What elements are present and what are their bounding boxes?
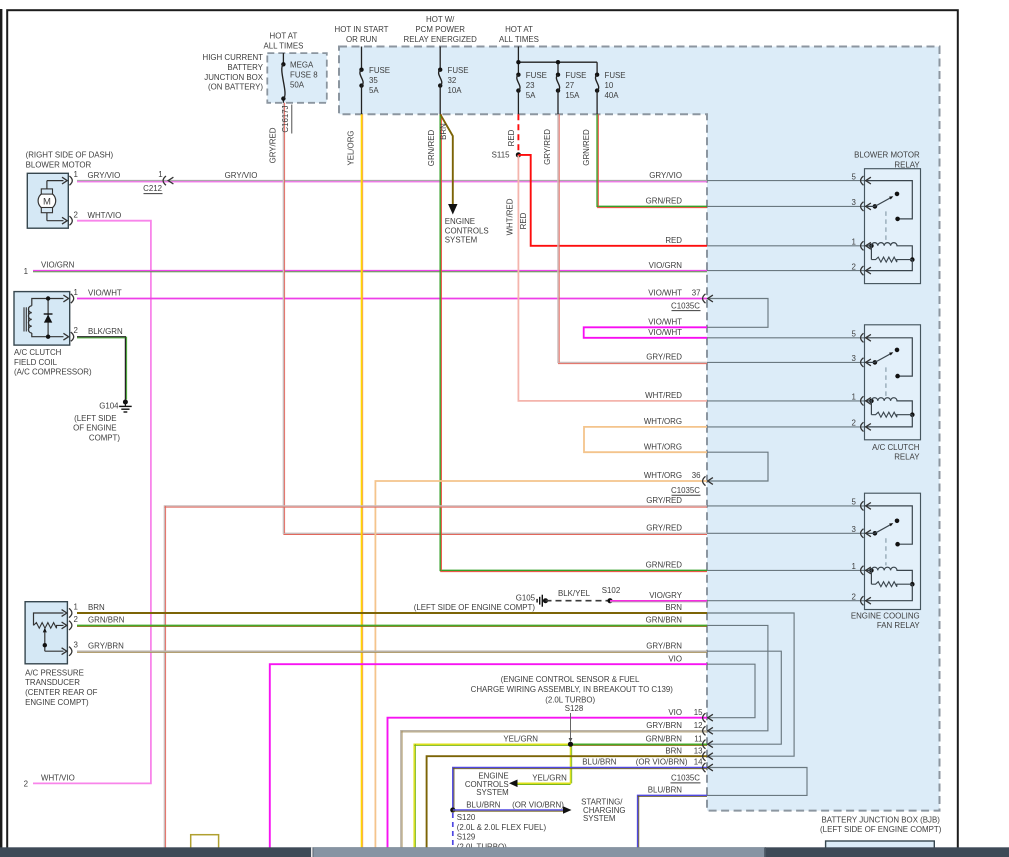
svg-text:BRN: BRN — [665, 746, 682, 755]
svg-text:1: 1 — [74, 602, 78, 611]
svg-text:(OR VIO/BRN): (OR VIO/BRN) — [636, 758, 688, 767]
svg-text:G105: G105 — [516, 594, 536, 603]
svg-text:(CENTER REAR OF: (CENTER REAR OF — [25, 688, 98, 697]
svg-text:2: 2 — [74, 615, 78, 624]
svg-text:GRN/RED: GRN/RED — [646, 561, 683, 570]
svg-text:3: 3 — [852, 525, 857, 534]
svg-text:YEL/GRN: YEL/GRN — [532, 774, 567, 783]
svg-text:S129: S129 — [457, 833, 476, 842]
svg-text:A/C PRESSURE: A/C PRESSURE — [25, 668, 84, 677]
svg-text:(2.0L & 2.0L FLEX FUEL): (2.0L & 2.0L FLEX FUEL) — [457, 823, 547, 832]
wire GRY/RED mega fuse8 down to engine cooling fan relay pin3 — [283, 103, 707, 534]
svg-text:(RIGHT SIDE OF DASH): (RIGHT SIDE OF DASH) — [26, 151, 114, 160]
svg-text:GRY/RED: GRY/RED — [543, 129, 552, 165]
svg-text:ALL TIMES: ALL TIMES — [263, 41, 303, 50]
svg-text:(ON BATTERY): (ON BATTERY) — [208, 83, 263, 92]
svg-text:BLU/BRN: BLU/BRN — [466, 800, 501, 809]
svg-text:5: 5 — [852, 172, 857, 181]
svg-text:3: 3 — [74, 641, 79, 650]
svg-text:1: 1 — [852, 238, 856, 247]
svg-text:5A: 5A — [526, 91, 536, 100]
svg-text:HOT AT: HOT AT — [270, 32, 298, 41]
gray wire to blower relay pin3 — [707, 205, 865, 207]
arrow to starting charging system right — [563, 806, 572, 814]
svg-text:COMPT): COMPT) — [89, 433, 120, 442]
feed line fuse 32 — [439, 47, 441, 70]
gray wire to ac clutch relay pin3 — [707, 361, 865, 363]
svg-text:OR RUN: OR RUN — [346, 35, 377, 44]
svg-text:14: 14 — [694, 758, 703, 767]
mega fuse 8 50A — [281, 62, 285, 66]
svg-text:FUSE: FUSE — [565, 71, 586, 80]
component box bottom right cut off — [826, 841, 935, 857]
svg-text:GRN/BRN: GRN/BRN — [88, 616, 125, 625]
wire VIO/WHT ac clutch coil pin1 to connector C1035C pin37 — [77, 298, 707, 300]
gray wire to fan relay pin2 — [707, 600, 865, 602]
svg-text:2: 2 — [852, 593, 856, 602]
svg-text:3: 3 — [852, 198, 857, 207]
svg-text:ALL TIMES: ALL TIMES — [499, 35, 539, 44]
svg-text:GRN/RED: GRN/RED — [646, 197, 683, 206]
svg-text:2: 2 — [74, 326, 78, 335]
svg-text:WHT/ORG: WHT/ORG — [644, 442, 682, 451]
connector C1035C pin 14 — [703, 763, 706, 772]
bottom scrollbar — [0, 847, 1009, 857]
wire BLU/BRN dashed splice S120 down (S129) — [452, 813, 454, 857]
wire WHT/VIO blower motor pin2 down-left stub 2 — [33, 221, 151, 784]
svg-text:1: 1 — [852, 562, 856, 571]
svg-text:WHT/ORG: WHT/ORG — [644, 471, 682, 480]
svg-text:(OR VIO/BRN): (OR VIO/BRN) — [512, 800, 564, 809]
svg-text:5: 5 — [852, 498, 857, 507]
ground G104 — [123, 400, 128, 405]
svg-text:15: 15 — [694, 708, 703, 717]
ac clutch coil pin 2 connector — [71, 332, 74, 341]
wire BLU/BRN splice S120 to starting charging arrow — [453, 809, 563, 811]
svg-text:GRY/RED: GRY/RED — [646, 353, 682, 362]
svg-text:12: 12 — [694, 721, 703, 730]
wire BRN ac pressure transducer pin1 to BJB — [77, 612, 707, 614]
svg-text:FUSE 8: FUSE 8 — [290, 71, 318, 80]
fuse F35 5A — [359, 68, 363, 72]
svg-text:27: 27 — [565, 81, 574, 90]
component box bottom left cut off — [191, 835, 219, 857]
svg-text:RELAY: RELAY — [894, 453, 920, 462]
svg-text:GRY/BRN: GRY/BRN — [88, 641, 124, 650]
ac clutch relay — [865, 325, 921, 440]
svg-text:1: 1 — [74, 170, 78, 179]
wire BLK/GRN ac clutch coil pin2 to ground G104 — [77, 337, 125, 400]
inline connector C212 — [163, 176, 166, 185]
svg-text:(LEFT SIDE OF ENGINE COMPT): (LEFT SIDE OF ENGINE COMPT) — [414, 603, 536, 612]
svg-text:1: 1 — [74, 288, 78, 297]
svg-text:VIO/WHT: VIO/WHT — [648, 318, 682, 327]
svg-text:PCM POWER: PCM POWER — [415, 25, 465, 34]
fuse F32 10A — [438, 68, 442, 72]
mega fuse 8 feed lines — [282, 53, 284, 64]
svg-text:GRY/BRN: GRY/BRN — [646, 641, 682, 650]
splice S102 — [607, 598, 612, 603]
svg-text:BLK/YEL: BLK/YEL — [558, 589, 591, 598]
svg-text:23: 23 — [526, 81, 535, 90]
svg-text:TRANSDUCER: TRANSDUCER — [25, 678, 80, 687]
wire YEL/GRN splice S128 down to engine controls arrow — [514, 744, 571, 783]
svg-text:5A: 5A — [369, 86, 379, 95]
svg-text:VIO: VIO — [668, 654, 682, 663]
wire BLK/YEL dashed ground G105 to splice S102 — [546, 600, 611, 602]
blower motor pin 1 connector — [69, 176, 72, 185]
svg-text:35: 35 — [369, 76, 378, 85]
svg-text:GRY/RED: GRY/RED — [646, 524, 682, 533]
svg-text:BATTERY: BATTERY — [227, 63, 263, 72]
svg-text:VIO/WHT: VIO/WHT — [648, 328, 682, 337]
svg-text:VIO/GRN: VIO/GRN — [649, 261, 683, 270]
wire RED dashed fuse23 to splice S115 — [517, 114, 519, 155]
svg-text:HIGH CURRENT: HIGH CURRENT — [203, 53, 264, 62]
fuse F10 40A — [595, 73, 599, 77]
svg-text:FUSE: FUSE — [526, 71, 547, 80]
gray loop GRN/BRN to connector 12 — [707, 625, 768, 730]
svg-text:G104: G104 — [99, 401, 119, 410]
gray loop connector 36 inside box — [707, 452, 768, 481]
svg-text:FAN RELAY: FAN RELAY — [877, 621, 921, 630]
svg-text:M: M — [43, 196, 51, 207]
svg-text:GRY/VIO: GRY/VIO — [88, 171, 121, 180]
svg-text:36: 36 — [692, 471, 701, 480]
connector C1035C pin 12 — [703, 726, 706, 735]
svg-text:C1035C: C1035C — [671, 301, 700, 310]
svg-text:MEGA: MEGA — [290, 61, 314, 70]
wire YEL/GRN splice S128 left and down to bottom — [414, 744, 570, 857]
svg-text:10: 10 — [605, 81, 614, 90]
svg-text:HOT IN START: HOT IN START — [335, 25, 389, 34]
svg-text:GRY/VIO: GRY/VIO — [649, 171, 682, 180]
svg-text:YEL/GRN: YEL/GRN — [503, 734, 538, 743]
svg-text:GRN/RED: GRN/RED — [582, 129, 591, 166]
blower motor — [27, 173, 68, 228]
fuse F23 5A — [516, 73, 520, 77]
svg-text:5: 5 — [852, 330, 857, 339]
ground G105 — [543, 598, 548, 603]
connector C1035C pin 13 — [703, 752, 706, 761]
svg-text:S120: S120 — [457, 813, 476, 822]
wire BLU/BRN connector C1035C pin14 to splice S120 — [453, 768, 707, 811]
svg-text:GRY/RED: GRY/RED — [269, 127, 278, 163]
svg-text:11: 11 — [694, 734, 702, 743]
svg-text:SYSTEM: SYSTEM — [583, 814, 615, 823]
wire BRN fuse32 branch to engine controls system arrow — [440, 114, 453, 204]
gray wire to fan relay pin1 — [707, 569, 865, 571]
svg-text:JUNCTION BOX: JUNCTION BOX — [204, 73, 263, 82]
wire GRY/BRN connector C1035C pin12 to bottom — [401, 731, 707, 857]
svg-text:HOT W/: HOT W/ — [426, 15, 455, 24]
svg-text:RELAY ENERGIZED: RELAY ENERGIZED — [404, 35, 478, 44]
svg-text:OF ENGINE: OF ENGINE — [73, 424, 116, 433]
ac clutch field coil — [14, 292, 70, 346]
svg-text:13: 13 — [694, 746, 703, 755]
clutch coil diode — [47, 299, 49, 337]
wire VIO connector C1035C pin15 to bottom — [388, 718, 708, 857]
splice S115 — [516, 152, 521, 157]
svg-text:1: 1 — [158, 170, 162, 179]
svg-text:BRN: BRN — [665, 603, 682, 612]
svg-text:VIO/WHT: VIO/WHT — [648, 289, 682, 298]
svg-text:ENGINE: ENGINE — [445, 217, 475, 226]
svg-text:BLK/GRN: BLK/GRN — [88, 327, 123, 336]
svg-text:BRN: BRN — [88, 603, 105, 612]
svg-text:GRY/VIO: GRY/VIO — [225, 171, 258, 180]
connector C1035C pin 36 — [703, 476, 706, 485]
svg-text:VIO/GRN: VIO/GRN — [41, 261, 75, 270]
gray wire to ac clutch relay pin1 — [707, 400, 865, 402]
blower motor relay — [865, 169, 921, 284]
svg-text:C1035C: C1035C — [671, 486, 700, 495]
wire VIO/GRY splice S102 to engine cooling fan relay pin2 — [610, 600, 707, 602]
svg-text:40A: 40A — [605, 91, 620, 100]
svg-text:CONTROLS: CONTROLS — [445, 226, 489, 235]
connector C1035C pin 15 — [703, 713, 706, 722]
svg-text:2: 2 — [74, 210, 78, 219]
svg-text:VIO: VIO — [668, 708, 682, 717]
wire BLU/BRN from BJB exit down to bottom — [638, 795, 707, 857]
transducer pin 2 connector — [69, 621, 72, 630]
svg-text:(ENGINE CONTROL SENSOR & FUEL: (ENGINE CONTROL SENSOR & FUEL — [501, 675, 640, 684]
splice S128 — [568, 742, 573, 747]
svg-text:RELAY: RELAY — [894, 160, 920, 169]
svg-text:GRN/BRN: GRN/BRN — [646, 616, 683, 625]
svg-text:2: 2 — [24, 779, 28, 788]
engine cooling fan relay — [865, 493, 921, 609]
gray wire to fan relay pin3 — [707, 532, 865, 534]
svg-text:15A: 15A — [565, 91, 580, 100]
splice S120 — [450, 807, 455, 812]
svg-text:WHT/ORG: WHT/ORG — [644, 417, 682, 426]
svg-text:VIO/WHT: VIO/WHT — [88, 289, 122, 298]
svg-text:32: 32 — [448, 76, 457, 85]
svg-text:RED: RED — [507, 129, 516, 146]
svg-text:FUSE: FUSE — [448, 66, 469, 75]
wire WHT/ORG ac clutch relay pin2 u-loop outside box — [584, 427, 707, 452]
feed and bus for fuses 23/27/10 — [517, 47, 519, 63]
gray wire to ac clutch relay pin2 — [707, 426, 865, 428]
connector C1035C pin 11 — [703, 740, 706, 749]
svg-text:GRY/RED: GRY/RED — [646, 496, 682, 505]
svg-text:A/C CLUTCH: A/C CLUTCH — [872, 443, 920, 452]
svg-text:A/C CLUTCH: A/C CLUTCH — [14, 348, 62, 357]
wire VIO down to bottom and right to BJB — [270, 664, 707, 857]
wire VIO/WHT u-loop outside box to ac clutch relay pin5 — [584, 327, 707, 338]
svg-text:S115: S115 — [492, 151, 510, 160]
battery junction box BJB dashed region — [339, 47, 940, 811]
wire GRN/RED fuse10 to blower relay pin3 — [597, 114, 707, 206]
transducer wiper — [43, 628, 47, 633]
wire GRY/RED from bottom up to engine cooling fan relay pin5 — [164, 506, 707, 857]
transducer pin 3 connector — [69, 647, 72, 656]
svg-text:3: 3 — [852, 354, 857, 363]
arrow to engine controls system left — [509, 780, 518, 788]
svg-text:37: 37 — [692, 289, 701, 298]
svg-text:FIELD COIL: FIELD COIL — [14, 358, 58, 367]
svg-text:BLU/BRN: BLU/BRN — [582, 758, 617, 767]
svg-text:SYSTEM: SYSTEM — [476, 788, 508, 797]
transducer pin 1 connector — [69, 608, 72, 617]
blower motor pin 2 connector — [69, 216, 72, 225]
svg-text:GRN/BRN: GRN/BRN — [646, 734, 683, 743]
svg-text:VIO/GRY: VIO/GRY — [649, 591, 682, 600]
svg-text:HOT AT: HOT AT — [505, 25, 533, 34]
wire GRY/VIO blower motor pin1 to blower relay pin5 — [77, 180, 707, 182]
gray wire to blower relay pin1 — [707, 245, 865, 247]
S128 leader line — [570, 713, 572, 739]
fuse F27 15A — [556, 73, 560, 77]
svg-text:50A: 50A — [290, 81, 305, 90]
svg-text:BLOWER MOTOR: BLOWER MOTOR — [854, 151, 920, 160]
svg-text:C1035C: C1035C — [671, 774, 700, 783]
gray loop connector 14 to BLU/BRN exit — [707, 768, 807, 796]
svg-text:CHARGE WIRING ASSEMBLY, IN BRE: CHARGE WIRING ASSEMBLY, IN BREAKOUT TO C… — [471, 685, 674, 694]
wire GRN/RED fuse32 down to engine cooling fan relay pin1 — [440, 114, 707, 570]
svg-text:C212: C212 — [143, 184, 162, 193]
ac clutch coil pin 1 connector — [71, 294, 74, 303]
wire YEL/ORG fuse35 down to bottom — [361, 114, 363, 857]
svg-text:2: 2 — [852, 262, 856, 271]
svg-text:C1617J: C1617J — [281, 105, 290, 132]
wire VIO/GRN stub1 to blower relay pin2 — [33, 270, 707, 272]
svg-text:ENGINE COOLING: ENGINE COOLING — [851, 611, 920, 620]
gray loop VIO to connector 15 — [707, 664, 755, 718]
svg-text:(LEFT SIDE: (LEFT SIDE — [74, 414, 116, 423]
svg-text:1: 1 — [852, 393, 856, 402]
svg-text:ENGINE COMPT): ENGINE COMPT) — [25, 698, 89, 707]
wire GRN/BRN ac pressure transducer pin2 to BJB — [77, 624, 707, 626]
svg-text:FUSE: FUSE — [605, 71, 626, 80]
svg-text:FUSE: FUSE — [369, 66, 390, 75]
svg-text:RED: RED — [665, 236, 682, 245]
outer left edge line — [0, 9, 2, 857]
connector C1035C pin 37 — [703, 294, 706, 303]
gray loop GRY/BRN to connector 11 — [707, 651, 781, 744]
svg-text:WHT/VIO: WHT/VIO — [88, 211, 122, 220]
svg-text:1: 1 — [24, 267, 28, 276]
high current battery junction box (mega fuse) dashed box — [267, 53, 327, 103]
svg-text:GRN/RED: GRN/RED — [427, 130, 436, 167]
wire RED splice S115 to blower relay pin1 — [518, 155, 707, 246]
gray loop connector 37 inside box — [707, 299, 768, 328]
svg-text:S128: S128 — [565, 704, 584, 713]
svg-text:WHT/RED: WHT/RED — [645, 391, 682, 400]
svg-text:10A: 10A — [448, 86, 463, 95]
wire WHT/ORG connector C1035C pin36 left and down to bottom — [375, 481, 707, 857]
svg-text:WHT/VIO: WHT/VIO — [41, 774, 75, 783]
svg-text:SYSTEM: SYSTEM — [445, 236, 477, 245]
feed line fuse 35 — [361, 47, 363, 70]
wire BRN connector C1035C pin13 to bottom — [427, 756, 707, 857]
motor M symbol — [38, 192, 56, 210]
svg-text:BATTERY JUNCTION BOX (BJB): BATTERY JUNCTION BOX (BJB) — [822, 815, 941, 824]
gray wire to fan relay pin5 — [707, 505, 865, 507]
arrow engine controls system — [448, 204, 457, 215]
svg-text:RED: RED — [519, 212, 528, 229]
gray loop BRN to connector 13 — [707, 613, 794, 756]
gray wire to blower relay pin2 — [707, 270, 865, 272]
svg-text:(LEFT SIDE OF ENGINE COMPT): (LEFT SIDE OF ENGINE COMPT) — [820, 825, 942, 834]
wire WHT/RED splice S115 down to ac clutch relay pin1 — [518, 155, 707, 401]
svg-text:WHT/RED: WHT/RED — [506, 198, 515, 235]
svg-text:(A/C COMPRESSOR): (A/C COMPRESSOR) — [14, 368, 92, 377]
svg-text:S102: S102 — [602, 586, 620, 595]
svg-text:GRY/BRN: GRY/BRN — [646, 721, 682, 730]
svg-text:BRN: BRN — [439, 123, 448, 140]
svg-text:BLU/BRN: BLU/BRN — [648, 786, 683, 795]
gray wire to ac clutch relay pin5 — [707, 337, 865, 339]
wire GRN/BRN connector C1035C pin11 to splice S128 — [571, 743, 708, 745]
svg-text:2: 2 — [852, 419, 856, 428]
ac pressure transducer — [25, 602, 67, 664]
wire GRY/RED fuse27 down to ac clutch relay pin3 — [558, 114, 707, 362]
wire GRY/BRN ac pressure transducer pin3 to BJB — [77, 650, 707, 652]
gray wire to blower relay pin5 — [707, 180, 865, 182]
svg-text:BLOWER MOTOR: BLOWER MOTOR — [26, 161, 92, 170]
svg-text:YEL/ORG: YEL/ORG — [347, 130, 356, 165]
